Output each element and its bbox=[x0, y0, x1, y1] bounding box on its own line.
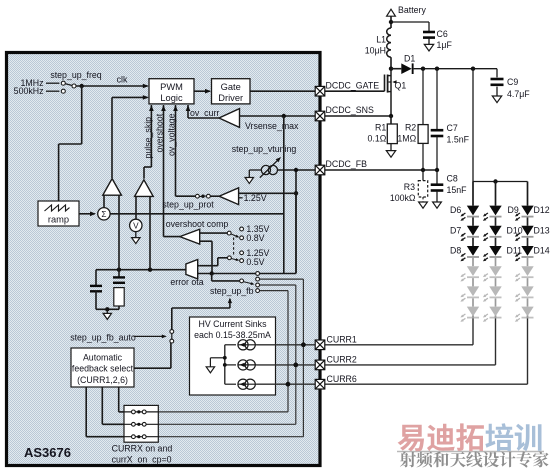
svg-text:clk: clk bbox=[117, 75, 128, 85]
svg-text:CURR6: CURR6 bbox=[327, 374, 357, 384]
svg-text:CURRX on and: CURRX on and bbox=[112, 444, 173, 454]
svg-text:100kΩ: 100kΩ bbox=[390, 193, 416, 203]
svg-text:error ota: error ota bbox=[170, 277, 203, 287]
svg-text:CURR1: CURR1 bbox=[327, 335, 357, 345]
svg-text:ramp: ramp bbox=[48, 215, 69, 225]
svg-text:feedback select: feedback select bbox=[72, 364, 134, 374]
svg-text:overshoot: overshoot bbox=[155, 113, 165, 152]
svg-text:ov_voltage: ov_voltage bbox=[167, 113, 177, 156]
svg-text:Gate: Gate bbox=[221, 82, 241, 92]
svg-text:step_up_freq: step_up_freq bbox=[50, 70, 101, 80]
svg-text:each 0.15-38.25mA: each 0.15-38.25mA bbox=[194, 330, 271, 340]
svg-text:0.5V: 0.5V bbox=[246, 257, 264, 267]
svg-text:V: V bbox=[133, 222, 139, 231]
svg-text:D6: D6 bbox=[450, 205, 461, 215]
svg-text:D7: D7 bbox=[450, 225, 461, 235]
svg-text:Battery: Battery bbox=[398, 5, 426, 15]
svg-text:CURR2: CURR2 bbox=[327, 355, 357, 365]
svg-text:Logic: Logic bbox=[160, 93, 183, 103]
svg-text:DCDC_GATE: DCDC_GATE bbox=[326, 80, 380, 90]
svg-text:C9: C9 bbox=[507, 77, 518, 87]
svg-text:D12: D12 bbox=[534, 205, 550, 215]
svg-text:0.1Ω: 0.1Ω bbox=[367, 134, 386, 144]
svg-text:step_up_fb: step_up_fb bbox=[210, 286, 254, 296]
svg-text:R2: R2 bbox=[405, 123, 416, 133]
svg-text:step_up_prot: step_up_prot bbox=[162, 200, 214, 210]
svg-text:Σ: Σ bbox=[101, 210, 106, 219]
svg-text:step_up_fb_auto: step_up_fb_auto bbox=[70, 332, 136, 342]
svg-text:D14: D14 bbox=[534, 246, 550, 256]
svg-text:AS3676: AS3676 bbox=[24, 445, 71, 460]
svg-text:D11: D11 bbox=[507, 246, 523, 256]
svg-text:currX_on_cp=0: currX_on_cp=0 bbox=[112, 454, 172, 464]
svg-text:Vrsense_max: Vrsense_max bbox=[245, 121, 299, 131]
svg-text:1MΩ: 1MΩ bbox=[397, 134, 416, 144]
svg-text:L1: L1 bbox=[376, 35, 386, 45]
svg-text:1.5nF: 1.5nF bbox=[447, 135, 470, 145]
svg-text:step_up_vtuning: step_up_vtuning bbox=[232, 144, 297, 154]
svg-text:ov_curr: ov_curr bbox=[190, 108, 219, 118]
svg-text:4.7μF: 4.7μF bbox=[507, 89, 530, 99]
svg-text:D13: D13 bbox=[534, 225, 550, 235]
svg-text:Automatic: Automatic bbox=[83, 352, 123, 362]
svg-text:R3: R3 bbox=[404, 182, 415, 192]
svg-text:HV Current Sinks: HV Current Sinks bbox=[199, 319, 268, 329]
svg-text:overshoot comp: overshoot comp bbox=[166, 219, 229, 229]
svg-text:D9: D9 bbox=[508, 205, 519, 215]
svg-text:pulse_skip: pulse_skip bbox=[143, 117, 153, 159]
svg-text:Driver: Driver bbox=[218, 93, 243, 103]
svg-text:R1: R1 bbox=[375, 123, 386, 133]
svg-text:(CURR1,2,6): (CURR1,2,6) bbox=[77, 375, 128, 385]
svg-text:C8: C8 bbox=[447, 174, 458, 184]
svg-text:1.25V: 1.25V bbox=[244, 193, 267, 203]
svg-text:Q1: Q1 bbox=[395, 81, 407, 91]
svg-text:C7: C7 bbox=[447, 123, 458, 133]
svg-text:DCDC_SNS: DCDC_SNS bbox=[326, 105, 375, 115]
svg-text:1μF: 1μF bbox=[437, 40, 453, 50]
svg-text:0.8V: 0.8V bbox=[246, 233, 264, 243]
svg-text:DCDC_FB: DCDC_FB bbox=[326, 159, 368, 169]
svg-text:D10: D10 bbox=[507, 225, 523, 235]
svg-text:10μH: 10μH bbox=[365, 46, 386, 56]
svg-text:D8: D8 bbox=[450, 246, 461, 256]
svg-text:15nF: 15nF bbox=[447, 185, 468, 195]
svg-text:500kHz: 500kHz bbox=[14, 86, 44, 96]
svg-text:D1: D1 bbox=[404, 54, 415, 64]
svg-text:PWM: PWM bbox=[160, 82, 183, 92]
svg-text:C6: C6 bbox=[437, 29, 448, 39]
